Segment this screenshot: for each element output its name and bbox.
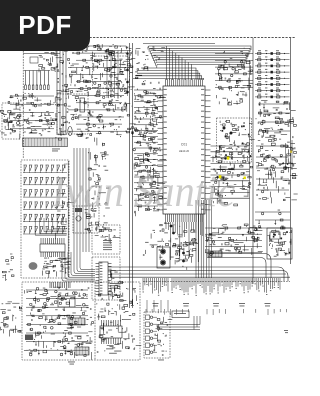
transistor Q701 (17, 116, 20, 119)
block sub dashed border (94, 282, 96, 360)
IC U802 top pins (101, 320, 103, 326)
IC X701 crystal (68, 127, 72, 136)
cluster badge-right small parts (120, 71, 124, 73)
wire right pin vertical drops (195, 200, 197, 278)
wire comb baseline (143, 281, 290, 283)
cluster left of bus fan (143, 51, 145, 53)
label under psu box (68, 361, 75, 364)
svg-text:C01: C01 (181, 143, 187, 147)
cluster jack parts (165, 321, 168, 324)
box AFC (30, 57, 38, 63)
label under jack box (158, 359, 164, 362)
block AGC dashed border (2, 103, 20, 139)
cluster under badge (39, 65, 43, 67)
wire drops from y50 (106, 51, 108, 99)
wire horizontal bus 4 (111, 276, 290, 278)
stamp text blob 1 (25, 335, 33, 341)
wire stub ticks below combs (145, 309, 147, 314)
resistor R245 highlighted (244, 177, 246, 180)
IC U101 top pins 1-19 (165, 79, 167, 86)
wire bus fan from U101 top to right column (166, 46, 168, 80)
cluster component column mid-left (91, 169, 96, 171)
IC IR receiver (76, 216, 81, 221)
net rows RGB (205, 227, 262, 229)
block OSD dashed border (92, 225, 120, 254)
cluster tuner parts (88, 129, 90, 132)
wire vertical bus group mid-left (73, 148, 75, 252)
net rows left of bus (215, 53, 253, 55)
connector P301 hatch bar (23, 138, 68, 147)
cluster left edge parts (9, 121, 13, 123)
transistor Q602 (161, 261, 165, 265)
wire left vertical bus A (129, 43, 131, 308)
net rows U101 left (134, 89, 158, 91)
wire matrix column staircase (65, 222, 68, 224)
transistor Q202 highlighted (219, 175, 222, 178)
cluster IR parts (91, 209, 93, 211)
IC U301 bottom pins (40, 252, 42, 257)
IC U301 top pins (40, 238, 42, 244)
CRT hatch (208, 251, 222, 257)
wire under badge (23, 53, 60, 55)
wire matrix inner right bus (67, 161, 69, 277)
block AV dashed border (217, 118, 252, 162)
resistor network rows right top (255, 53, 290, 55)
dark dots pepper top-left (76, 100, 77, 101)
wire bus elbow right (278, 267, 284, 281)
transistor Q103 (147, 159, 150, 162)
connector comb J4 (231, 278, 233, 285)
stamp IR label (75, 208, 82, 212)
label AV box (172, 311, 189, 318)
stamp U401 text (110, 282, 118, 285)
cluster tuner vertical wires (56, 45, 58, 135)
wire bus fan from U101 top to left (141, 68, 196, 80)
PDF badge (0, 0, 90, 51)
wire left vertical bus B (131, 43, 133, 308)
svg-text:HE13-20: HE13-20 (179, 149, 190, 153)
transistor Q604 (172, 232, 175, 235)
transistor Q201 highlighted (227, 157, 230, 160)
block keyboard dashed border (21, 160, 69, 278)
IC U401 pins (96, 263, 100, 265)
cluster keyboard right parts (66, 228, 67, 229)
wire vertical bus net V2 (249, 60, 251, 230)
transistor column x127 (126, 52, 129, 55)
wire net row y50 (40, 50, 131, 52)
wire jack elbows right (157, 324, 200, 326)
wire right lower nets (255, 211, 290, 213)
transistor Q601 (161, 250, 165, 254)
IC U702 body (80, 98, 85, 112)
cluster IF section (57, 98, 62, 100)
CRT inner box (270, 232, 280, 239)
connector jacks J601-J606 (146, 315, 150, 320)
block U401 dashed border (92, 257, 120, 300)
net rows right lower (256, 145, 289, 147)
connector comb psu top edge (49, 282, 51, 288)
wire U101 bottom pin drops (165, 222, 167, 229)
block power supply dashed border (22, 282, 140, 360)
keyboard switch matrix S1-S48 (23, 172, 67, 174)
transistor Q302 dark (230, 132, 233, 135)
IC U101 right pins with labels (205, 89, 211, 91)
junction dots top-left (88, 112, 90, 114)
wire right page border (290, 38, 292, 264)
cluster left edge bottom (13, 306, 16, 309)
cluster below IC parts (192, 249, 194, 251)
net rows IF section (10, 95, 54, 97)
IC U101 left pins with labels (158, 89, 164, 91)
connector comb J1 (142, 278, 144, 290)
transistor Q102 (140, 186, 143, 189)
wire right mid nets (258, 103, 290, 105)
wire drops to bottom blocks (146, 300, 148, 312)
stamp logo ellipse (29, 262, 38, 270)
cluster psu left parts (62, 339, 64, 344)
transistor Q605 dark (182, 252, 185, 255)
resistor R votes mark (284, 329, 288, 332)
resistor pack RP1 (25, 71, 27, 86)
transistor Q702 (17, 122, 20, 125)
cluster below U301 (44, 266, 48, 267)
cluster right mid rows (259, 109, 261, 117)
block IR receiver dashed border (73, 206, 99, 233)
cluster right lower rows (289, 161, 291, 163)
cluster psu right parts (126, 289, 129, 290)
net rows psu left (26, 289, 88, 291)
block IF dashed border (57, 94, 88, 134)
cluster power drive parts (179, 255, 181, 261)
connector comb J2 (171, 278, 173, 291)
cluster RGB parts (240, 226, 241, 227)
net rows tuner section (68, 45, 126, 47)
connector hatch psu bottom (75, 347, 89, 355)
wire top horizontal feed (143, 43, 215, 45)
IC U401 body (99, 262, 108, 295)
wire left dashed border (22, 51, 24, 158)
label under P301 (52, 148, 60, 151)
IC U801 body (58, 296, 75, 307)
block tuner dashed border (93, 56, 130, 88)
IC U101 C01 HE13-20 body (163, 86, 205, 214)
IC U301 body (40, 244, 65, 252)
connector hatch psu (68, 318, 85, 325)
stamp OSD text (103, 239, 112, 242)
cluster CRT parts (289, 231, 292, 234)
wire page top dashed border (86, 37, 295, 39)
wire U101 right row nets (211, 145, 250, 147)
cluster around U401 (111, 273, 113, 280)
wire elbow bundle to right (62, 252, 95, 281)
cluster left edge middle (11, 260, 12, 261)
transistor Q301 dark (223, 127, 226, 130)
block vertical out box (157, 247, 170, 268)
cluster U101 right components (227, 174, 230, 177)
wire horizontal bus 1 (108, 266, 278, 268)
block jack dashed border (144, 312, 170, 358)
wire bus RP1 top (24, 70, 50, 72)
cluster OSD parts (101, 230, 103, 231)
cluster U101 left components (155, 176, 159, 178)
connector comb J3 (201, 278, 203, 285)
transistor Q603 (170, 225, 173, 228)
IC U101 bottom pins (165, 214, 167, 222)
IC U802 body (100, 326, 122, 338)
junction dots right edge (282, 163, 284, 165)
cluster between fans and right col (226, 81, 227, 82)
wire horizontal bus 2 (108, 270, 282, 272)
wire vertical bus net V1 (252, 38, 254, 284)
watermark Ivan Santic (52, 166, 235, 217)
cluster AV block parts (223, 157, 225, 159)
transistor Q606 dark (182, 260, 185, 263)
IC U802 bottom pins (101, 338, 103, 344)
wire horizontal bus 3 (111, 273, 286, 275)
block CRT socket (267, 228, 292, 259)
wire right edge net (278, 163, 296, 165)
stamp text blob 2 (114, 343, 119, 346)
connector comb J5 (254, 278, 256, 282)
